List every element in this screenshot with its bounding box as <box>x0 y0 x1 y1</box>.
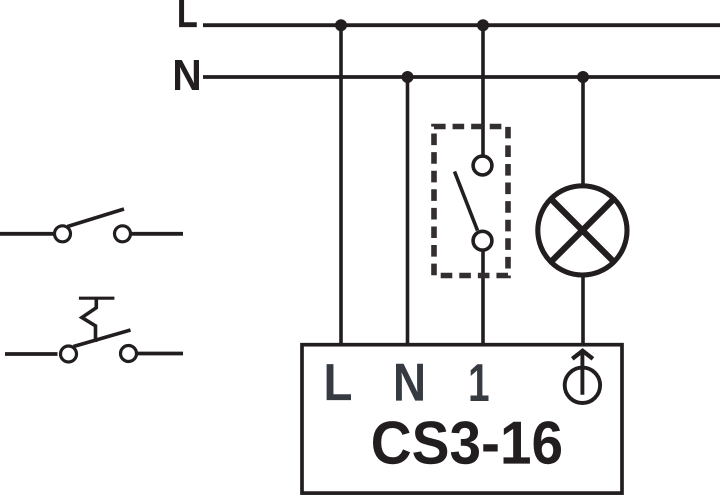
node N (neutral rail) <box>203 75 720 79</box>
lamp E1 cross stroke 2 <box>550 198 616 264</box>
wire N rail to lamp <box>581 77 585 186</box>
node L (phase rail) <box>203 23 720 27</box>
pushbutton S2 left lead wire <box>5 352 58 356</box>
terminal label L <box>327 364 351 400</box>
switch S1 left contact circle <box>55 226 71 242</box>
wire lamp to box timer output <box>581 275 585 345</box>
switch S1 lever <box>68 209 125 227</box>
device type label CS3-16 <box>373 421 561 464</box>
lamp E1 cross stroke 1 <box>550 198 616 264</box>
relay contact enclosure (dashed box) <box>434 127 508 276</box>
junction dot N rail / wire to lamp <box>577 71 589 83</box>
timer output symbol circle <box>565 368 600 403</box>
terminal label N <box>396 364 423 401</box>
wire L rail to box terminal L <box>339 25 343 344</box>
switch S1 right contact circle <box>115 226 131 242</box>
label L (phase) <box>179 0 197 27</box>
pushbutton S2 left contact circle <box>61 346 77 362</box>
timer output symbol arrowhead <box>572 351 593 359</box>
lamp E1 circle <box>538 186 627 275</box>
device box CS3-16 outline <box>302 345 622 493</box>
pushbutton S2 actuator T-bar <box>79 297 115 300</box>
relay contact lever <box>455 172 478 231</box>
pushbutton S2 actuator stem and spring zigzag <box>82 298 96 342</box>
terminal label 1 <box>471 364 489 401</box>
junction dot N rail / wire to terminal N <box>402 71 414 83</box>
label N (neutral) <box>175 60 199 90</box>
relay contact lower terminal circle <box>473 231 492 250</box>
junction dot L rail / wire to contact <box>477 19 489 31</box>
pushbutton S2 lever <box>74 330 131 347</box>
pushbutton S2 right contact circle <box>121 346 137 362</box>
switch S1 (wall switch, left lead wire) <box>0 232 54 236</box>
pushbutton S2 right lead wire <box>138 352 184 356</box>
timer output symbol shaft <box>580 351 584 395</box>
relay contact upper terminal circle <box>473 156 492 175</box>
switch S1 right lead wire <box>132 232 184 236</box>
wire contact lower terminal to box terminal 1 <box>481 250 485 345</box>
junction dot L rail / wire to terminal L <box>335 19 347 31</box>
wire N rail to box terminal N <box>406 77 410 345</box>
wire L rail to contact upper terminal <box>481 25 485 156</box>
